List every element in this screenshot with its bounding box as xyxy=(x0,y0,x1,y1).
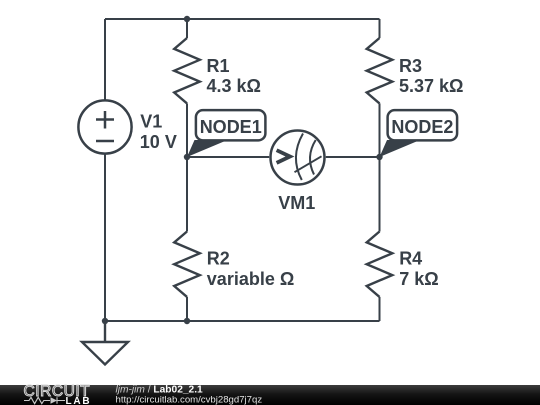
wire: R4 top stub xyxy=(379,157,381,232)
svg-text:4.3 kΩ: 4.3 kΩ xyxy=(207,76,261,96)
resistor R1 xyxy=(174,38,200,103)
label R1 xyxy=(207,56,261,96)
wire: R1 top stub xyxy=(186,19,188,38)
svg-text:LAB: LAB xyxy=(66,396,92,405)
ground xyxy=(82,321,128,365)
svg-text:VM1: VM1 xyxy=(278,193,315,213)
svg-text:NODE1: NODE1 xyxy=(200,117,262,137)
node NODE2 junction dot xyxy=(376,154,382,160)
resistor R3 xyxy=(367,38,393,103)
node dot: top junction of R1 with top rail xyxy=(184,16,190,22)
wire: left rail from top rail to bottom rail xyxy=(104,19,106,321)
svg-text:R4: R4 xyxy=(399,248,422,268)
svg-text:R1: R1 xyxy=(207,56,230,76)
wire: R2 top stub xyxy=(186,157,188,232)
label R2 xyxy=(207,248,294,288)
node dot: R2 junction with bottom rail xyxy=(184,318,190,324)
voltage source V1 xyxy=(78,100,131,153)
label V1 value xyxy=(140,111,177,152)
callout NODE1 xyxy=(187,110,265,157)
callout NODE2 xyxy=(380,110,458,157)
svg-text:R3: R3 xyxy=(399,56,422,76)
wire: R4 bottom stub xyxy=(379,297,381,321)
svg-text:5.37 kΩ: 5.37 kΩ xyxy=(399,76,463,96)
svg-text:NODE2: NODE2 xyxy=(391,117,453,137)
wire: R3 top stub xyxy=(379,19,381,38)
svg-text:10 V: 10 V xyxy=(140,132,177,152)
voltmeter VM1 xyxy=(271,131,325,185)
svg-text:http://circuitlab.com/cvbj28gd: http://circuitlab.com/cvbj28gd7j7qz xyxy=(116,394,263,405)
svg-text:V1: V1 xyxy=(140,111,162,131)
wire: VM1 right terminal to NODE2 xyxy=(326,156,380,158)
wire: R1 bottom stub to NODE1 xyxy=(186,103,188,157)
node NODE1 junction dot xyxy=(184,154,190,160)
wire: top rail xyxy=(105,18,380,20)
svg-text:variable Ω: variable Ω xyxy=(207,269,294,289)
resistor R4 xyxy=(367,232,393,297)
node dot: ground junction with bottom rail xyxy=(102,318,108,324)
svg-text:7 kΩ: 7 kΩ xyxy=(399,269,438,289)
wire: NODE1 to VM1 left terminal xyxy=(187,156,269,158)
footer bar xyxy=(0,385,540,405)
wire: R2 bottom stub xyxy=(186,297,188,321)
label R3 xyxy=(399,56,463,96)
label R4 xyxy=(399,248,438,288)
wire: bottom rail xyxy=(105,320,380,322)
svg-text:R2: R2 xyxy=(207,248,230,268)
wire: R3 bottom stub to NODE2 xyxy=(379,103,381,157)
resistor R2 xyxy=(174,232,200,297)
CircuitLab logo wordmark xyxy=(24,383,92,405)
